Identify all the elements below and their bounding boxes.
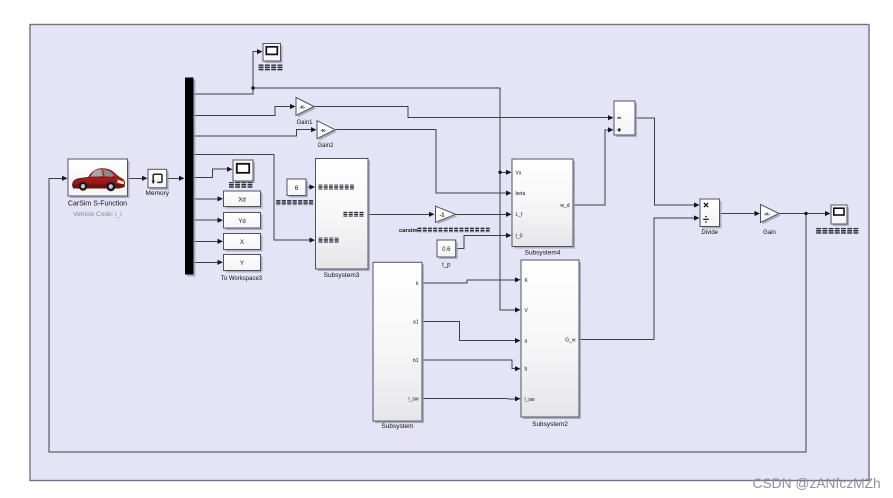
svg-text:beta: beta — [516, 191, 526, 197]
svg-text:6: 6 — [295, 185, 299, 192]
svg-text:a: a — [525, 339, 528, 345]
svg-text:To Workspace3: To Workspace3 — [221, 276, 263, 282]
wire: constant 0.6 to t_0 input of Subsystem4 — [456, 235, 507, 248]
subsystem Subsystem3 — [318, 161, 371, 272]
scope: ideal steering wheel angle — [833, 207, 849, 226]
memory icon — [153, 174, 162, 182]
block Y — [226, 257, 263, 273]
wire: branch to Vx of Subsystem4 — [500, 171, 507, 173]
label carsim sign note: CJK part — [418, 227, 422, 232]
svg-text:Memory: Memory — [146, 190, 170, 197]
wire: feedback from Gain output down and around to CarSim input — [49, 178, 806, 452]
gain -1 carsim sign flip — [438, 208, 458, 224]
wire: Gain2 output to beta input of Subsystem4 — [336, 130, 507, 193]
wire: bar port1 to scope and long Vx/V line — [194, 52, 258, 94]
wire: Subsystem b1 to Subsystem2 b — [422, 360, 516, 369]
svg-text:l_sw: l_sw — [525, 397, 535, 403]
wire: constant 6 to Subsystem3 input1 — [306, 186, 310, 188]
port label preview error in (CJK) — [319, 238, 323, 243]
block Yd — [226, 215, 263, 231]
port label heading error out (CJK) — [343, 212, 347, 217]
wire: Subsystem4 w_d output to Sum plus input — [574, 130, 609, 205]
svg-text:Subsystem2: Subsystem2 — [532, 421, 568, 428]
svg-text:CSDN @zANfczMZh: CSDN @zANfczMZh — [753, 476, 881, 491]
block X — [226, 236, 263, 252]
svg-text:Gain: Gain — [763, 230, 776, 236]
svg-text:-K-: -K- — [764, 212, 771, 217]
svg-text:X: X — [240, 240, 244, 246]
scope: lateral error — [235, 162, 255, 183]
subsystem Subsystem4 — [514, 161, 575, 249]
gain Gain2 — [319, 123, 337, 141]
wire: Gain output to steering scope — [780, 213, 826, 215]
svg-text:Subsystem4: Subsystem4 — [525, 250, 561, 257]
svg-text:b: b — [525, 367, 528, 373]
scope: longitudinal speed — [265, 46, 283, 64]
wire: Subsystem k to Subsystem2 K — [422, 280, 516, 283]
svg-text:-K-: -K- — [320, 128, 327, 133]
svg-text:w_d: w_d — [560, 203, 569, 209]
subsystem Subsystem2 — [523, 262, 581, 419]
carsim car drawing — [72, 169, 124, 192]
block Memory — [150, 171, 169, 190]
constant 6 — [289, 181, 308, 198]
block Xd — [226, 193, 263, 209]
wire: CarSim to Memory — [128, 177, 143, 179]
label ideal steering angle (CJK) — [816, 228, 821, 234]
svg-text:-K-: -K- — [299, 105, 306, 110]
svg-text:-1: -1 — [440, 213, 445, 219]
svg-text:a1: a1 — [413, 320, 419, 326]
wire: Subsystem3 output to -1 gain — [368, 213, 430, 215]
wire: Subsystem2 G_w output up to Divide divisor input — [579, 218, 695, 340]
svg-text:Y: Y — [240, 261, 244, 267]
wire: bar port2 to Gain1 — [194, 107, 291, 116]
svg-text:Subsystem3: Subsystem3 — [324, 272, 360, 279]
svg-text:L_f: L_f — [516, 212, 524, 218]
svg-text:t_p: t_p — [442, 263, 451, 269]
svg-text:G_w: G_w — [565, 338, 576, 344]
label lateral error (CJK) — [229, 182, 234, 188]
svg-text:0.6: 0.6 — [442, 247, 451, 253]
svg-text:l_sw: l_sw — [408, 396, 418, 402]
wire: Subsystem l_sw to Subsystem2 l_sw — [422, 397, 516, 400]
wire: -1 gain to L_f input of Subsystem4 — [456, 213, 507, 215]
gain Gain (final) — [763, 207, 782, 225]
wire: Sum output to Divide x input — [635, 118, 695, 205]
wire: bar to Y — [194, 261, 219, 263]
svg-text:t_0: t_0 — [516, 233, 523, 239]
junction at long line branch — [251, 86, 254, 89]
wire: bar port5 to lateral-error scope — [194, 169, 228, 178]
junction on gain output feedback takeoff — [804, 212, 807, 215]
sum block — [616, 103, 637, 137]
wire: Divide output to Gain — [720, 213, 756, 215]
svg-text:Divide: Divide — [701, 230, 718, 236]
svg-text:CarSim S-Function: CarSim S-Function — [68, 201, 127, 208]
label longitudinal speed (CJK) — [259, 65, 264, 71]
wire: bar port4 to Subsystem3 second input — [194, 155, 311, 241]
port label preview time (CJK) — [319, 185, 323, 190]
subsystem Subsystem (bottom left) — [375, 264, 424, 423]
svg-text:Yd: Yd — [238, 219, 245, 225]
svg-text:Xd: Xd — [238, 197, 245, 203]
wire: bar to X — [194, 240, 219, 242]
svg-text:Vehicle Code: i_i: Vehicle Code: i_i — [73, 211, 121, 218]
divide block — [702, 201, 722, 229]
wire: Gain1 output to Sum minus input — [314, 107, 609, 118]
wire: bar to Xd — [194, 198, 219, 200]
constant 0.6 — [439, 242, 458, 259]
wire: bar port3 to Gain2 — [194, 130, 312, 136]
gain Gain1 — [298, 100, 316, 118]
wire: Subsystem a1 to Subsystem2 a — [422, 322, 516, 341]
svg-text:carsim: carsim — [399, 228, 418, 234]
demux bar — [187, 80, 196, 277]
wire: Memory to Demux bar — [167, 177, 180, 179]
svg-text:Gain2: Gain2 — [317, 143, 334, 149]
wire: bar to Yd — [194, 219, 219, 221]
svg-text:Vx: Vx — [516, 170, 522, 176]
label preview distance (CJK) — [276, 200, 280, 205]
svg-text:Gain1: Gain1 — [296, 120, 313, 126]
svg-text:b1: b1 — [413, 358, 419, 364]
block CarSim S-Function — [70, 161, 130, 198]
svg-text:Subsystem: Subsystem — [381, 423, 413, 430]
